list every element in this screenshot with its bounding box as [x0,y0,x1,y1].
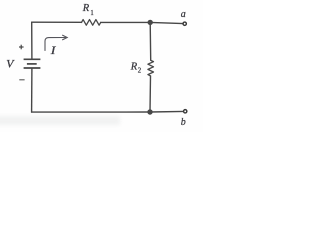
wire stub to terminal b [150,110,184,113]
wire bottom horizontal [32,111,150,113]
terminal b open circle [184,110,187,113]
plus sign of source [19,45,24,50]
current arrow I [45,35,67,50]
wire top horizontal right segment [101,21,151,23]
battery V plate short middle [27,63,37,65]
wire left branch lower (battery bottom lead) [31,69,33,113]
junction node at top of R2 [148,20,153,25]
wire right branch lower [149,76,152,112]
wire stub to terminal a [150,22,183,23]
terminal a open circle [183,22,186,25]
minus sign of source [19,79,24,81]
svg-text:I: I [50,44,57,56]
wire right branch upper [149,22,152,60]
battery V plate long top [24,58,41,60]
svg-text:R: R [82,3,90,14]
wire left branch upper (battery top lead) [31,22,33,58]
svg-text:b: b [181,117,186,128]
wire top horizontal left segment [32,21,82,23]
svg-text:1: 1 [90,10,93,17]
battery V plate long bottom [24,67,41,69]
resistor R1 [82,20,101,26]
svg-text:R: R [130,61,138,72]
junction node at bottom of R2 [147,109,152,114]
resistor R2 [148,60,154,76]
svg-text:a: a [181,9,186,20]
svg-text:2: 2 [138,68,142,75]
